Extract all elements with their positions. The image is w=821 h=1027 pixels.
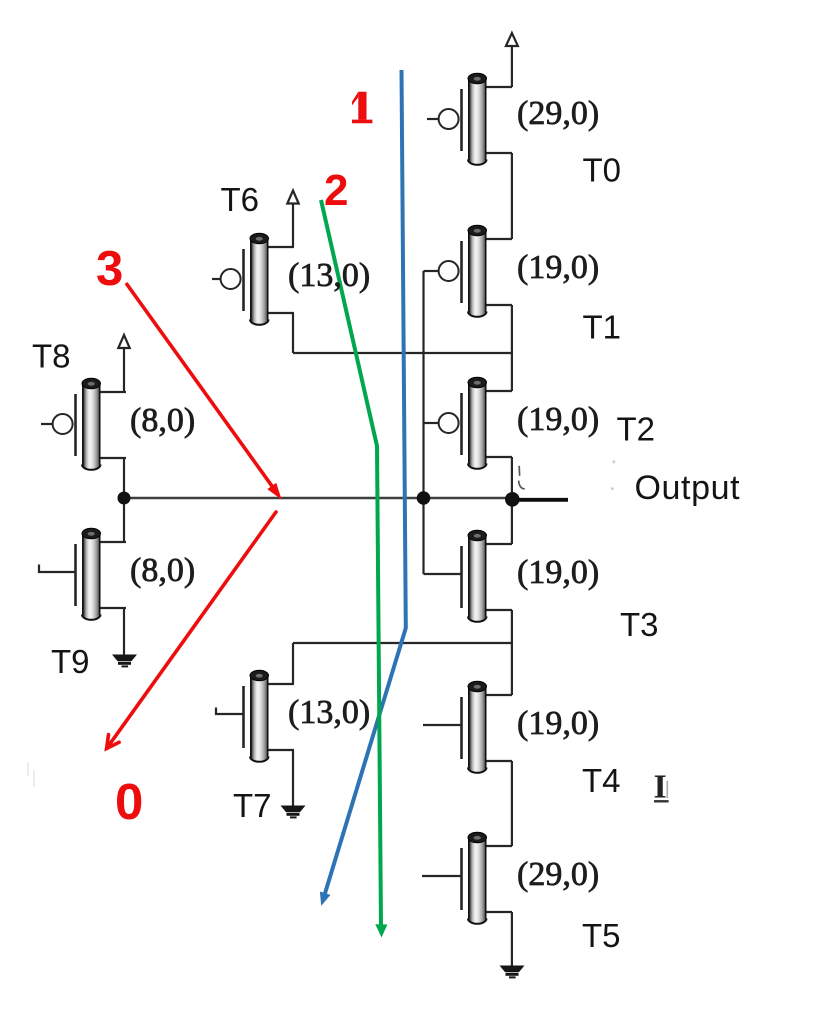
wire T6 gate input stub [212, 278, 222, 280]
svg-text:(29,0): (29,0) [517, 95, 599, 132]
transistor T1 [439, 225, 512, 317]
svg-text:T0: T0 [583, 152, 622, 189]
svg-text:(19,0): (19,0) [517, 705, 599, 742]
svg-text:(13,0): (13,0) [288, 257, 370, 294]
transistor T3 [462, 530, 513, 622]
wire T9 drain to output node [123, 498, 125, 542]
wire T3 gate stub [424, 573, 462, 575]
transistor T4 [462, 681, 513, 773]
wire rail T3-T4 [511, 610, 513, 695]
wire gate bus T1 T2 T3 [422, 271, 424, 574]
transistor T0 [439, 73, 512, 165]
wire T0 gate input stub [427, 118, 439, 120]
wire rail T4-T5 [511, 761, 513, 846]
svg-text:T8: T8 [32, 338, 71, 375]
svg-text:(19,0): (19,0) [517, 401, 599, 438]
wire rail T2-T3 [511, 457, 513, 544]
svg-text:(19,0): (19,0) [517, 554, 599, 591]
faint mark lower left [27, 762, 35, 787]
red arrow 3 to output node [126, 283, 282, 500]
wire T7 drain up to bus [292, 643, 294, 684]
node junction dot gate bus on output net [417, 491, 431, 505]
svg-text:(8,0): (8,0) [130, 552, 195, 589]
blue cut line 1 [320, 70, 406, 906]
svg-text:I: I [654, 769, 667, 806]
svg-text:T7: T7 [233, 787, 272, 824]
node junction dot left inverter output [118, 492, 131, 505]
wire rail T1-T2 [511, 305, 513, 391]
wire T7 source to ground [292, 750, 294, 806]
wire bus T6 drain to rail [293, 352, 512, 354]
svg-text:Output: Output [635, 469, 741, 507]
red arrow 0 from output node to lower left [107, 512, 276, 749]
wire T1 gate to gate bus [424, 270, 440, 272]
transistor T2 [439, 377, 512, 469]
ground at T9 [112, 655, 137, 668]
svg-text:T6: T6 [221, 181, 260, 218]
red label 1 [352, 92, 372, 123]
wire T9 gate stub [39, 565, 76, 573]
wire rail T0-T1 [511, 153, 513, 239]
faint specks left of Output label [611, 460, 615, 490]
wire T6 drain down to bus [292, 313, 294, 353]
power VDD arrow at T0 [506, 33, 518, 87]
transistor T5 [462, 832, 513, 924]
ground at T5 [500, 966, 525, 979]
transistor T7 [244, 670, 295, 762]
wire T5 gate stub [422, 875, 462, 877]
power VDD arrow at T6 [287, 191, 298, 248]
svg-text:T4: T4 [582, 762, 621, 799]
svg-text:(13,0): (13,0) [288, 694, 370, 731]
svg-text:T5: T5 [582, 917, 621, 954]
power VDD arrow at T8 [118, 335, 129, 392]
wire T2 gate to gate bus [424, 422, 440, 424]
svg-text:(29,0): (29,0) [517, 856, 599, 893]
wire T4 gate stub [423, 724, 462, 726]
svg-text:(8,0): (8,0) [130, 402, 195, 439]
svg-text:T1: T1 [583, 309, 622, 346]
label underlined I [654, 769, 669, 806]
svg-text:T9: T9 [51, 643, 90, 680]
svg-text:(19,0): (19,0) [517, 249, 599, 286]
ground at T7 [281, 806, 306, 819]
wire bus T7 drain to rail [293, 642, 512, 644]
transistor T9 [76, 528, 127, 620]
wire T8 drain to output node [123, 458, 125, 498]
wire T5 source to ground [511, 912, 513, 966]
wire T9 source to ground [123, 608, 125, 655]
wire T7 gate stub [216, 708, 244, 715]
stray squiggle mark above output dot [519, 466, 525, 489]
green cut line 2 [321, 200, 387, 938]
svg-text:T3: T3 [620, 606, 659, 643]
transistor T8 [53, 378, 126, 470]
transistor T6 [221, 233, 294, 325]
svg-text:0: 0 [115, 773, 143, 830]
svg-text:T2: T2 [617, 411, 656, 448]
wire output stub thick [516, 498, 568, 502]
svg-text:2: 2 [324, 166, 348, 215]
svg-text:3: 3 [96, 242, 123, 296]
wire T8 gate input stub [41, 423, 54, 425]
node junction dot output on rail [505, 492, 520, 507]
wire output net horizontal [124, 497, 514, 500]
